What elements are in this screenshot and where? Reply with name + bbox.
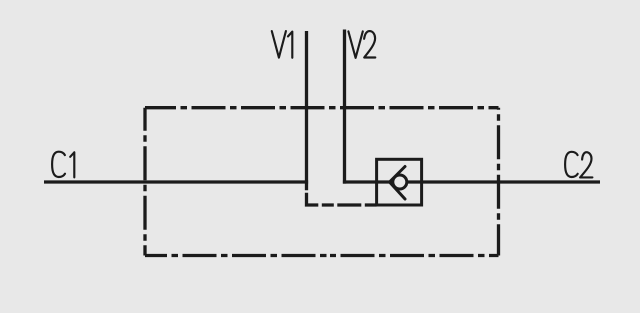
port label C2 <box>565 152 592 178</box>
wire: port V1 vertical line <box>305 31 308 190</box>
pilot line (dashed) from V1 to check valve <box>307 193 377 205</box>
check valve CV1: seat <box>390 167 406 200</box>
check valve CV1: square body <box>377 159 422 205</box>
wire: port V2 vertical line <box>343 30 346 184</box>
port label C1 <box>52 152 74 178</box>
check valve CV1: ball <box>393 175 407 189</box>
wire: port C1 horizontal line <box>44 180 308 183</box>
wire: port C2 horizontal line (through check valve) <box>343 180 600 183</box>
enclosure: valve-body boundary (dash-dot box) <box>145 108 499 256</box>
port label V1 <box>272 31 293 58</box>
port label V2 <box>348 31 375 58</box>
